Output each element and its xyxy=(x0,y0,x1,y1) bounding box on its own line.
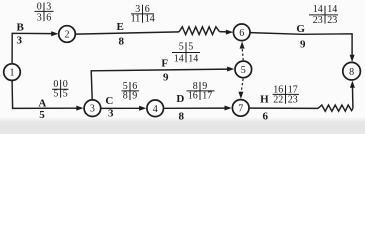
svg-text:23: 23 xyxy=(327,15,337,26)
svg-text:2: 2 xyxy=(65,30,70,41)
svg-text:3: 3 xyxy=(108,108,114,120)
svg-text:B: B xyxy=(17,22,25,34)
svg-text:14: 14 xyxy=(145,14,155,25)
svg-text:16: 16 xyxy=(188,91,198,102)
svg-text:E: E xyxy=(117,21,124,33)
svg-text:8: 8 xyxy=(349,67,354,78)
svg-text:22: 22 xyxy=(273,95,283,106)
svg-text:8: 8 xyxy=(118,36,124,48)
svg-text:3: 3 xyxy=(46,1,51,12)
svg-text:11: 11 xyxy=(131,14,141,25)
svg-text:3: 3 xyxy=(17,34,23,46)
svg-text:5: 5 xyxy=(179,41,184,52)
svg-text:8: 8 xyxy=(178,111,184,123)
svg-text:8: 8 xyxy=(123,91,128,102)
svg-text:5: 5 xyxy=(53,89,58,100)
svg-text:F: F xyxy=(161,58,168,70)
svg-text:23: 23 xyxy=(288,95,298,106)
svg-text:A: A xyxy=(38,97,46,109)
svg-text:0: 0 xyxy=(37,1,42,12)
svg-text:7: 7 xyxy=(238,103,243,114)
svg-text:9: 9 xyxy=(300,39,306,51)
svg-text:6: 6 xyxy=(262,110,268,122)
svg-text:9: 9 xyxy=(163,72,169,84)
svg-text:C: C xyxy=(105,95,113,107)
svg-text:14: 14 xyxy=(174,53,184,64)
svg-text:3: 3 xyxy=(37,12,42,23)
svg-text:G: G xyxy=(296,23,305,35)
svg-text:6: 6 xyxy=(239,28,244,39)
svg-text:9: 9 xyxy=(132,91,137,102)
svg-text:5: 5 xyxy=(188,41,193,52)
svg-text:4: 4 xyxy=(153,104,158,115)
svg-text:1: 1 xyxy=(10,68,15,79)
svg-text:5: 5 xyxy=(241,65,246,76)
svg-text:14: 14 xyxy=(313,4,323,15)
svg-text:23: 23 xyxy=(313,15,323,26)
svg-text:6: 6 xyxy=(46,12,51,23)
svg-text:17: 17 xyxy=(202,91,212,102)
svg-text:5: 5 xyxy=(39,109,45,121)
svg-text:3: 3 xyxy=(90,104,95,115)
svg-text:14: 14 xyxy=(188,53,198,64)
svg-text:5: 5 xyxy=(63,89,68,100)
svg-text:14: 14 xyxy=(327,4,337,15)
svg-text:D: D xyxy=(176,93,184,105)
svg-text:H: H xyxy=(260,93,269,105)
